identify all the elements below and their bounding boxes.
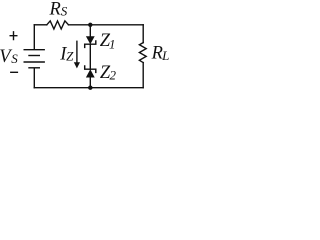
svg-text:R: R	[151, 44, 163, 64]
wire top-left segment	[34, 24, 47, 26]
wire left lower	[33, 68, 35, 88]
zener Z1 triangle	[86, 36, 95, 44]
svg-text:S: S	[11, 51, 18, 66]
wire right lower	[142, 63, 144, 88]
wire bottom	[34, 87, 143, 89]
wire middle center	[89, 44, 91, 69]
wire middle lower	[89, 77, 91, 87]
battery VS short plate 2	[29, 67, 39, 69]
svg-text:R: R	[49, 0, 61, 20]
zener Z2 cathode bar	[85, 66, 96, 72]
current IZ arrowhead	[74, 62, 80, 68]
battery VS short plate 1	[29, 55, 39, 57]
current IZ arrow shaft	[76, 41, 78, 63]
junction node bottom	[88, 86, 92, 90]
wire top-right segment	[69, 24, 144, 26]
svg-text:1: 1	[109, 37, 116, 52]
wire left upper	[33, 25, 35, 49]
battery VS long plate 1	[24, 49, 44, 51]
battery minus sign	[11, 71, 18, 73]
svg-text:2: 2	[110, 67, 117, 82]
resistor RL	[139, 43, 146, 63]
wire middle upper	[89, 25, 91, 37]
svg-text:L: L	[161, 48, 169, 63]
wire right upper	[142, 25, 144, 43]
battery VS long plate 2	[24, 61, 44, 63]
zener Z1 cathode bar	[85, 41, 96, 47]
zener Z2 triangle	[86, 69, 95, 77]
junction node top	[88, 23, 92, 27]
svg-text:Z: Z	[66, 49, 74, 64]
resistor RS	[47, 21, 69, 29]
battery plus sign	[10, 32, 17, 40]
svg-text:S: S	[61, 3, 68, 18]
